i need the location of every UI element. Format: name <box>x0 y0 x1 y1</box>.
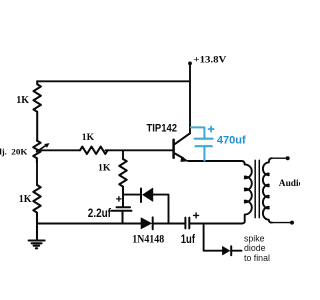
wire D3 output stub <box>231 250 241 252</box>
diode D3 spike (pointing right) <box>222 246 229 255</box>
capacitor C3 plus sign <box>208 126 213 131</box>
transistor Q1 TIP142 collector <box>175 133 190 144</box>
potentiometer R2 wiper arrow <box>37 145 47 152</box>
wire emitter to transformer <box>188 161 245 164</box>
wire C2 to transformer <box>189 223 242 225</box>
transistor Q1 emitter with arrow <box>175 154 184 159</box>
svg-text:470uf: 470uf <box>217 135 246 147</box>
ground <box>29 224 45 249</box>
diode D1 1N4148 (top, pointing left) <box>140 189 142 203</box>
wire supply vertical to collector <box>189 63 191 133</box>
svg-text:Adj.: Adj. <box>0 146 7 156</box>
svg-text:2.2uf: 2.2uf <box>88 206 112 220</box>
wire pot wiper to R5 <box>37 149 80 151</box>
svg-text:to final: to final <box>244 253 270 263</box>
transformer T1 primary winding <box>230 164 252 223</box>
wire top horizontal rail <box>37 80 190 82</box>
capacitor C1 2.2uf <box>112 195 132 224</box>
svg-text:1K: 1K <box>82 132 95 143</box>
resistor R4 1K (lower left vertical) <box>33 185 40 224</box>
terminal dot secondary bottom <box>290 221 294 225</box>
svg-text:1K: 1K <box>16 95 29 106</box>
transformer T1 secondary winding <box>263 158 272 222</box>
wire pot to R4 <box>36 162 38 185</box>
resistor R3 1K (middle vertical) <box>119 159 126 195</box>
wire D2 to C2 <box>153 223 186 225</box>
svg-text:1K: 1K <box>19 194 32 205</box>
svg-text:+13.8V: +13.8V <box>193 55 226 66</box>
transistor Q1 base bar <box>172 140 175 158</box>
resistor R5 1K (horizontal base feed) <box>80 147 108 154</box>
capacitor C3 470uf lower lead <box>203 146 205 161</box>
terminal dot secondary top <box>286 156 290 160</box>
capacitor C2 1uf <box>185 218 189 229</box>
capacitor C1 2.2uf plus sign <box>117 197 121 201</box>
svg-text:TIP142: TIP142 <box>147 122 178 134</box>
capacitor C3 470uf plates <box>195 139 213 147</box>
diode D2 1N4148 (bottom, pointing right) <box>141 218 152 229</box>
node supply dot <box>188 62 192 66</box>
capacitor C2 plus sign <box>194 213 199 218</box>
wire D1 to right drop <box>153 195 169 224</box>
svg-text:Audio: Audio <box>279 179 300 189</box>
wire bottom rail left <box>37 223 141 225</box>
svg-text:1N4148: 1N4148 <box>132 234 164 246</box>
wire R5 to base <box>106 150 174 159</box>
svg-text:1uf: 1uf <box>181 232 196 246</box>
potentiometer R2 20K body <box>33 141 40 163</box>
transformer T1 core <box>255 160 259 217</box>
capacitor C3 470uf tap wire <box>191 127 205 138</box>
svg-text:spike: spike <box>244 234 265 244</box>
wire secondary top lead <box>272 157 288 159</box>
wire branch to spike diode <box>204 224 222 251</box>
svg-text:20K: 20K <box>11 146 27 156</box>
wire secondary bottom lead <box>272 222 292 224</box>
resistor R1 1K (upper left vertical) <box>34 81 41 140</box>
node A wire to D1 <box>123 194 140 196</box>
svg-text:1K: 1K <box>98 162 111 173</box>
svg-text:diode: diode <box>244 243 266 253</box>
